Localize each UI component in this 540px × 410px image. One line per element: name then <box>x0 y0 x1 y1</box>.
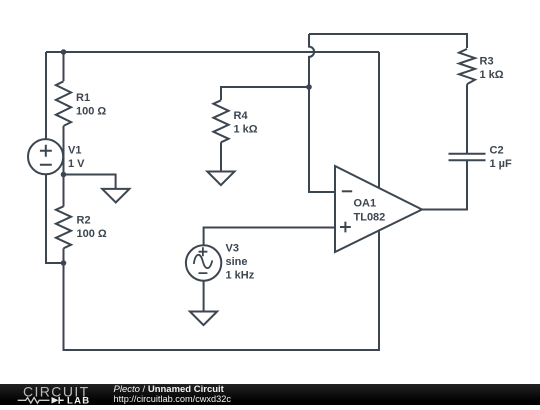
node junction R1 top on rail <box>61 49 67 55</box>
node junction R1/R2/ground <box>61 172 67 178</box>
wire non-inverting input from V3 <box>204 228 335 246</box>
wire C2 to op-amp output <box>422 160 467 209</box>
node junction R2 bottom <box>61 260 67 266</box>
source V3 sine <box>186 245 221 280</box>
svg-text:R4: R4 <box>234 110 249 122</box>
wire top feedback run <box>309 34 467 48</box>
wire V3 bottom lead <box>203 281 205 312</box>
label R1 100 Ohm <box>76 92 106 118</box>
svg-text:1 kΩ: 1 kΩ <box>234 124 258 136</box>
svg-text:1 µF: 1 µF <box>490 158 513 170</box>
wire junction to ground G1 <box>64 175 116 189</box>
svg-text:1 kΩ: 1 kΩ <box>480 69 504 81</box>
wire op-amp V+ pin from rail <box>378 52 380 189</box>
wire R2 top lead <box>63 175 65 207</box>
label OA1 TL082 <box>354 198 386 224</box>
wire inverting input with hop over rail <box>309 34 335 192</box>
wire top-left rail <box>46 51 379 53</box>
svg-text:V1: V1 <box>68 145 81 157</box>
wire R4 bottom lead <box>220 142 222 171</box>
voltage source V1 <box>28 139 63 174</box>
label R4 1kOhm <box>234 110 258 136</box>
svg-text:R2: R2 <box>77 215 91 227</box>
resistor R2 <box>56 206 71 248</box>
wire R3 to C2 <box>466 84 468 154</box>
svg-text:100 Ω: 100 Ω <box>77 228 107 240</box>
svg-text:LAB: LAB <box>67 396 90 406</box>
label R2 100 Ohm <box>77 215 107 241</box>
svg-text:sine: sine <box>226 256 248 268</box>
footer caption line 2 <box>114 394 231 404</box>
wire R2 bottom lead <box>63 248 65 263</box>
svg-text:TL082: TL082 <box>354 212 386 224</box>
ground G3 <box>190 312 217 326</box>
capacitor C2 <box>449 154 486 161</box>
svg-text:1 kHz: 1 kHz <box>226 269 255 281</box>
wire R4 top to inverting node <box>221 87 309 100</box>
wire R1 top lead <box>63 52 65 81</box>
resistor R1 <box>56 81 71 126</box>
svg-text:R3: R3 <box>480 56 494 68</box>
label R3 1kOhm <box>480 56 504 82</box>
op-amp OA1 <box>335 166 422 252</box>
label V3 sine 1kHz <box>226 243 255 282</box>
resistor R3 <box>459 49 475 84</box>
label V1 1V <box>68 145 85 171</box>
svg-text:OA1: OA1 <box>354 198 377 210</box>
wire V1 bottom to R2 bottom junction <box>46 174 64 263</box>
svg-text:V3: V3 <box>226 243 239 255</box>
wire left rail to V1 plus terminal <box>45 52 47 139</box>
wire R1 bottom lead <box>63 126 65 175</box>
resistor R4 <box>213 100 228 142</box>
ground G1 <box>102 189 129 203</box>
svg-text:R1: R1 <box>76 92 90 104</box>
footer bar <box>0 384 540 405</box>
CircuitLab logo <box>0 384 100 405</box>
node junction R4 inverting node <box>306 84 312 90</box>
ground G2 <box>207 172 234 186</box>
footer caption line 1 <box>114 384 224 395</box>
svg-text:C2: C2 <box>490 145 504 157</box>
svg-text:1 V: 1 V <box>68 158 85 170</box>
svg-text:100 Ω: 100 Ω <box>76 106 106 118</box>
label C2 1uF <box>490 145 513 171</box>
wire bottom rail to op-amp V- pin <box>64 231 380 350</box>
